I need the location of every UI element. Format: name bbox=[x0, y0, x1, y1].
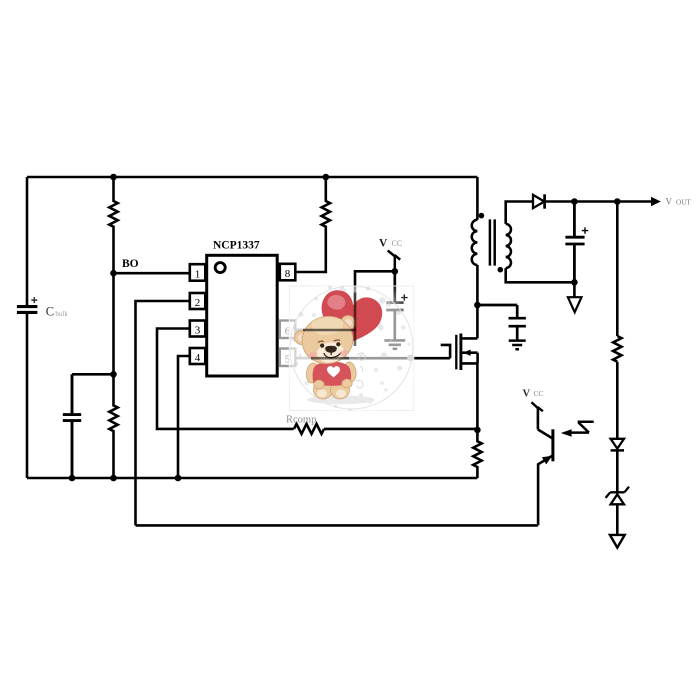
wire sense mid bbox=[616, 362, 619, 439]
transistor opto output bbox=[551, 429, 554, 461]
transformer primary winding bbox=[472, 220, 478, 265]
pin 3 bbox=[190, 321, 206, 337]
svg-text:BO: BO bbox=[122, 258, 139, 270]
wire zener down bbox=[616, 504, 619, 535]
svg-text:V: V bbox=[379, 238, 388, 250]
muzzle bbox=[316, 341, 346, 365]
nose bbox=[325, 346, 337, 353]
svg-text:Rcomp: Rcomp bbox=[286, 415, 316, 426]
svg-text:OUT: OUT bbox=[676, 199, 691, 207]
junction source / Rcomp bbox=[474, 427, 481, 434]
capacitor BO filter bbox=[63, 374, 81, 478]
op-amp ic NCP1337 U1 bbox=[207, 255, 278, 376]
arms bbox=[305, 362, 320, 383]
pin 1 bbox=[190, 264, 206, 281]
wire left rail upper bbox=[26, 177, 29, 306]
watermark heart balloon bbox=[312, 287, 385, 358]
junction output / sense bbox=[614, 198, 621, 205]
wire top bus bbox=[27, 176, 477, 179]
pin 4 bbox=[190, 348, 206, 364]
watermark polka dots bbox=[292, 281, 410, 412]
legs bbox=[314, 381, 333, 399]
left ear bbox=[295, 331, 309, 345]
junction top bus / pullup bbox=[323, 174, 330, 181]
wire primary to drain bbox=[476, 265, 479, 338]
wire left rail lower bbox=[26, 314, 29, 478]
transformer primary phase dot bbox=[479, 213, 485, 219]
resistor Rcomp bbox=[294, 424, 324, 434]
capacitor Cbulk bbox=[17, 307, 38, 313]
wire bottom long return bbox=[136, 524, 538, 527]
pin 6 bbox=[280, 321, 296, 339]
ground snubber bbox=[509, 341, 526, 350]
node BO bbox=[110, 270, 117, 277]
wire Vout sense branch bbox=[616, 202, 619, 337]
ground output triangle bbox=[573, 282, 576, 297]
arrow return marker bbox=[610, 535, 625, 548]
eyes bbox=[320, 344, 324, 348]
wire diode to zener bbox=[616, 450, 619, 492]
diode output rectifier bbox=[533, 195, 544, 208]
mouth bbox=[324, 353, 341, 358]
wire gate hook bbox=[441, 345, 450, 358]
diode sense bbox=[611, 439, 624, 449]
watermark ring bbox=[290, 286, 413, 409]
wire BO node to pin 1 bbox=[114, 272, 190, 275]
resistor BO upper divider bbox=[109, 177, 117, 273]
junction top bus / divider bbox=[110, 174, 117, 181]
wire source down bbox=[476, 363, 479, 430]
zener diode bbox=[606, 487, 629, 498]
svg-text:bulk: bulk bbox=[55, 310, 68, 318]
shirt bbox=[313, 362, 352, 386]
mosfet Q1 bbox=[455, 335, 457, 370]
svg-text:C: C bbox=[46, 304, 54, 318]
junction pin4 / ground bus bbox=[175, 475, 182, 482]
junction return / cap bbox=[571, 279, 578, 286]
wire pin5 gray stub bbox=[297, 357, 315, 360]
svg-text:4: 4 bbox=[195, 352, 201, 364]
emitter with arrow bbox=[538, 455, 553, 525]
wire divider mid bbox=[112, 273, 115, 374]
wire output line bbox=[545, 200, 651, 203]
svg-text:CC: CC bbox=[392, 239, 403, 248]
wire Rcomp to source node bbox=[324, 428, 477, 431]
wire pin 6 Vcc bbox=[295, 271, 395, 330]
resistor pin8 pull-up bbox=[295, 177, 330, 272]
paws bbox=[314, 380, 324, 389]
pin 2 bbox=[190, 293, 206, 309]
cheeks bbox=[308, 351, 317, 358]
junction drain / snubber bbox=[474, 302, 481, 309]
capacitor snubber bbox=[477, 305, 526, 340]
svg-text:8: 8 bbox=[285, 268, 291, 280]
svg-text:NCP1337: NCP1337 bbox=[213, 240, 260, 252]
wire overlays through watermark art bbox=[303, 329, 356, 332]
capacitor Vcc decoupling bbox=[386, 271, 403, 339]
watermark square edge bbox=[289, 286, 414, 411]
wire pin6 gray stub bbox=[297, 329, 309, 332]
head bbox=[297, 311, 358, 369]
right ear bbox=[341, 316, 355, 330]
wire cap branch horizontal bbox=[72, 373, 114, 376]
resistor source sense bbox=[473, 430, 481, 478]
svg-text:CC: CC bbox=[534, 389, 544, 398]
junction divider mid bbox=[110, 371, 117, 378]
svg-text:3: 3 bbox=[195, 325, 201, 337]
junction cap / ground bus bbox=[69, 475, 76, 482]
power flag Vcc2 bbox=[532, 402, 543, 411]
wire primary rail down bbox=[476, 177, 479, 220]
resistor sense upper bbox=[613, 336, 621, 362]
pin 8 bbox=[280, 264, 296, 281]
resistor BO lower divider bbox=[109, 374, 117, 478]
transformer core bbox=[490, 219, 495, 265]
wire pin 5 drive bbox=[295, 357, 450, 360]
power flag Vcc1 bbox=[388, 251, 401, 272]
ground Vcc cap bbox=[384, 340, 405, 348]
capacitor output bbox=[565, 202, 584, 283]
junction Vcc branch bbox=[392, 268, 399, 275]
junction divider / ground bus bbox=[110, 475, 117, 482]
watermark bear shadow bbox=[307, 395, 375, 404]
gray dot on drive wire bbox=[407, 354, 414, 361]
svg-text:2: 2 bbox=[195, 297, 201, 309]
svg-text:V: V bbox=[523, 389, 531, 400]
arrowhead Vout bbox=[651, 197, 661, 206]
svg-text:1: 1 bbox=[195, 269, 201, 281]
transformer secondary phase dot bbox=[498, 267, 504, 273]
transformer secondary winding bbox=[506, 224, 511, 268]
junction output / cap bbox=[571, 198, 578, 205]
opto light arrow bbox=[571, 422, 594, 433]
wire secondary top bbox=[506, 202, 533, 224]
wire bottom ground bus bbox=[27, 477, 477, 480]
wire secondary bottom return bbox=[506, 268, 575, 282]
svg-text:V: V bbox=[666, 197, 673, 207]
wire pin 4 bbox=[178, 356, 190, 478]
watermark bear bbox=[295, 311, 358, 399]
wire pin 2 feedback bbox=[136, 301, 190, 525]
pin 5 bbox=[280, 349, 296, 367]
wire pin 3 comp bbox=[157, 329, 294, 429]
watermark swirls bbox=[356, 353, 366, 388]
